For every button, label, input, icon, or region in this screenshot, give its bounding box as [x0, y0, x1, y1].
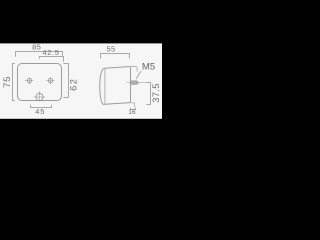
- dimension 37.5 right: [146, 83, 150, 105]
- front view lamp body: [18, 64, 62, 101]
- label M5 with leader: [136, 71, 141, 79]
- bracket tab top: [131, 67, 137, 72]
- mounting hole left (crosshair): [25, 77, 33, 84]
- svg-text:37.5: 37.5: [150, 83, 161, 102]
- svg-text:16: 16: [128, 109, 136, 116]
- side view body: [103, 67, 131, 105]
- svg-text:75: 75: [1, 76, 12, 88]
- bottom hole big (crosshair): [34, 91, 45, 101]
- side view lens seam: [104, 68, 106, 104]
- dimension 45 bottom: [31, 105, 52, 108]
- bolt centerline: [127, 82, 151, 84]
- dimension 42.5: [40, 57, 64, 62]
- dimension 75 left: [13, 64, 15, 101]
- svg-text:55: 55: [107, 45, 116, 54]
- svg-text:42.5: 42.5: [43, 48, 60, 57]
- dimension 62 right: [64, 64, 69, 98]
- svg-text:45: 45: [35, 107, 45, 116]
- dimension 55 top: [101, 54, 130, 59]
- M5 stud bolt: [131, 81, 139, 85]
- mounting hole right (crosshair): [46, 77, 54, 84]
- side view lens arc: [100, 68, 104, 104]
- dimension 85 top: [16, 52, 63, 57]
- dimension 16 bottom right: [131, 108, 136, 110]
- svg-text:62: 62: [68, 78, 79, 91]
- letterbox: white drawing band on black square: [0, 0, 162, 162]
- svg-text:M5: M5: [142, 62, 155, 73]
- bracket foot bottom: [131, 103, 135, 107]
- svg-text:85: 85: [32, 42, 41, 51]
